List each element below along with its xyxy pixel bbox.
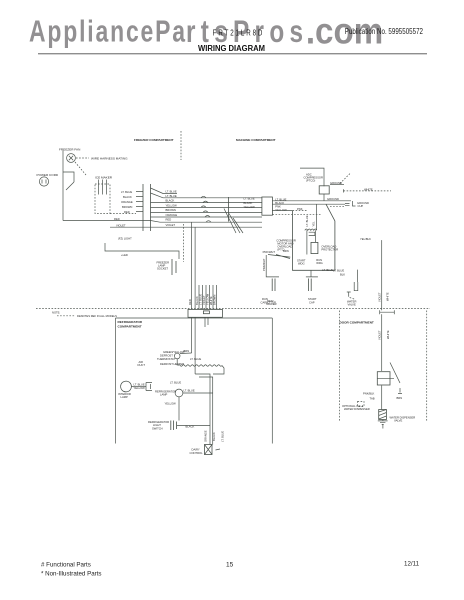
svg-text:YELLOW: YELLOW bbox=[206, 293, 210, 305]
svg-text:# Functional Parts: # Functional Parts bbox=[41, 562, 91, 569]
svg-text:BLACK: BLACK bbox=[195, 296, 199, 305]
lamp socket bracket bbox=[146, 383, 152, 391]
label INTERIOR LAMP bbox=[118, 392, 131, 399]
svg-text:RED: RED bbox=[114, 217, 120, 221]
svg-text:REFRIGERATOR: REFRIGERATOR bbox=[118, 320, 143, 324]
power cord plug P1 bbox=[37, 173, 59, 186]
svg-text:BRN: BRN bbox=[184, 349, 190, 353]
wire thermostat link bbox=[180, 352, 192, 355]
svg-text:BROWN: BROWN bbox=[166, 208, 176, 212]
svg-text:LT. BLUE: LT. BLUE bbox=[134, 382, 145, 386]
svg-text:LT. BLUE: LT. BLUE bbox=[244, 196, 255, 200]
wire violet door vertical bbox=[381, 314, 383, 371]
wire left trunk bbox=[62, 151, 64, 221]
svg-text:LAMP: LAMP bbox=[160, 393, 168, 397]
label OVERLOAD PROTECTOR bbox=[321, 244, 338, 251]
svg-text:DENOTES REF IN ALL MODELS: DENOTES REF IN ALL MODELS bbox=[77, 314, 117, 318]
connector J1 left bar bbox=[142, 184, 144, 231]
publication number text bbox=[345, 26, 423, 36]
label WATER VALVE bbox=[347, 299, 356, 306]
ground symbol door bbox=[378, 420, 388, 429]
svg-text:BLACK: BLACK bbox=[212, 432, 216, 441]
label START CAP bbox=[308, 297, 317, 304]
dairy control box bbox=[205, 445, 213, 455]
wire freezer lamp feed bbox=[105, 243, 179, 259]
svg-text:YELLOW: YELLOW bbox=[244, 205, 256, 209]
wire main violet vertical bbox=[381, 240, 383, 310]
svg-text:LT. BLUE: LT. BLUE bbox=[190, 357, 201, 361]
svg-text:BLACK: BLACK bbox=[166, 199, 175, 203]
capacitor C1 plates bbox=[272, 279, 275, 292]
compartment divider dashed lower bbox=[183, 224, 185, 262]
dairy control cross bbox=[205, 445, 213, 455]
wires into terminal block bbox=[199, 285, 216, 309]
wire lamp2 drop bbox=[178, 397, 180, 421]
refrigerator lamp DS2 bbox=[175, 389, 183, 397]
defrost thermostat circle bbox=[174, 353, 180, 359]
svg-text:BRN: BRN bbox=[283, 249, 289, 253]
label GROUND CUP bbox=[357, 201, 369, 208]
wire brown bbox=[151, 211, 263, 213]
svg-text:GROUND: GROUND bbox=[330, 181, 342, 185]
svg-text:CONTROL: CONTROL bbox=[190, 451, 204, 455]
wire ground diagonal bbox=[340, 174, 350, 184]
wire machine bus black bbox=[272, 200, 351, 202]
door hinge connector bbox=[380, 310, 395, 314]
svg-text:PROTECTOR: PROTECTOR bbox=[321, 247, 338, 251]
svg-text:ORANGE: ORANGE bbox=[203, 430, 207, 442]
label OPTIONAL ICE WATER DISPENSER bbox=[342, 404, 370, 411]
svg-text:(PTCO): (PTCO) bbox=[306, 179, 315, 183]
dairy tick bbox=[216, 449, 221, 450]
svg-text:VIOLET: VIOLET bbox=[378, 330, 382, 340]
svg-text:Publication No. 5995505572: Publication No. 5995505572 bbox=[345, 26, 423, 36]
wire stubs left of J1 bbox=[136, 192, 143, 212]
wire orange bbox=[151, 216, 263, 218]
svg-text:YELLOW: YELLOW bbox=[166, 204, 178, 208]
labels lamp wires bbox=[134, 382, 146, 390]
rotated labels dairy wires bbox=[203, 430, 224, 442]
water valve bracket bbox=[354, 270, 358, 291]
svg-text:PNK/WHT: PNK/WHT bbox=[262, 258, 266, 271]
ice maker pins bbox=[99, 180, 107, 195]
boundary dashed horizontal bbox=[36, 308, 430, 310]
model number text bbox=[213, 27, 263, 37]
svg-text:RED: RED bbox=[188, 299, 192, 305]
wire dashed yellow2 bbox=[272, 213, 320, 215]
svg-text:BLK: BLK bbox=[340, 272, 345, 276]
wire lt blue 2 bbox=[151, 193, 263, 198]
dashed stub bbox=[330, 206, 345, 208]
svg-text:VALVE: VALVE bbox=[394, 419, 402, 423]
svg-text:WDG: WDG bbox=[316, 261, 323, 265]
light switch S1 plates bbox=[171, 421, 177, 431]
wire elbow to relay bbox=[300, 168, 324, 186]
svg-text:DEFROST HEATER: DEFROST HEATER bbox=[160, 362, 184, 366]
leader from fan bbox=[75, 162, 86, 175]
wire white dashed bbox=[344, 190, 392, 192]
labels right of mid bar bbox=[244, 196, 256, 209]
harness wire labels column bbox=[166, 190, 178, 228]
water valve tee bbox=[347, 292, 351, 297]
wire below solenoid bbox=[381, 386, 383, 410]
svg-text:ORANGE: ORANGE bbox=[121, 200, 133, 204]
water dispenser valve box hatched bbox=[379, 410, 387, 420]
svg-text:SOCKET: SOCKET bbox=[157, 267, 168, 271]
svg-text:LT. BLUE: LT. BLUE bbox=[170, 380, 181, 384]
svg-text:GROUND: GROUND bbox=[327, 197, 339, 201]
svg-text:THERMOSTAT: THERMOSTAT bbox=[157, 357, 175, 361]
svg-text:WDG: WDG bbox=[298, 262, 305, 266]
svg-text:WIRING DIAGRAM: WIRING DIAGRAM bbox=[198, 43, 265, 53]
svg-text:VIOLET: VIOLET bbox=[166, 223, 176, 227]
white wire tick bbox=[343, 189, 345, 192]
svg-text:TRACER: TRACER bbox=[266, 302, 277, 306]
wire relay drop bbox=[323, 194, 325, 201]
svg-text:LT. BLUE: LT. BLUE bbox=[221, 431, 225, 442]
svg-text:SWITCH: SWITCH bbox=[152, 426, 163, 430]
svg-text:WHITE: WHITE bbox=[209, 296, 213, 305]
label REFRIGERATOR LAMP bbox=[155, 389, 176, 396]
switch contact bbox=[398, 388, 402, 394]
label WATER DISPENSER VALVE bbox=[390, 415, 416, 422]
svg-text:12/11: 12/11 bbox=[404, 561, 420, 568]
svg-text:ICE MAKER: ICE MAKER bbox=[95, 176, 113, 180]
svg-text:BROWN: BROWN bbox=[122, 205, 132, 209]
svg-text:LT. BLUE: LT. BLUE bbox=[333, 269, 344, 273]
svg-text:NOTE:: NOTE: bbox=[52, 311, 60, 315]
wire trunk lt blue down bbox=[191, 222, 193, 309]
svg-text:BLACK: BLACK bbox=[186, 424, 195, 428]
wire red long bbox=[63, 221, 262, 223]
svg-text:RED: RED bbox=[166, 218, 172, 222]
wire down violet 2 bbox=[194, 317, 196, 374]
wire lt blue 1 bbox=[151, 188, 178, 194]
svg-text:YEL/BLK: YEL/BLK bbox=[360, 237, 371, 241]
compressor winding bumps bbox=[305, 229, 317, 230]
connector J1 right bar bbox=[150, 184, 152, 231]
wire black bbox=[151, 202, 263, 204]
ground underline bbox=[330, 184, 344, 186]
wire switch branch bbox=[63, 172, 74, 182]
svg-text:WATER DISPENSER: WATER DISPENSER bbox=[344, 407, 370, 411]
svg-text:BROWN: BROWN bbox=[213, 295, 217, 305]
title rule line bbox=[38, 53, 427, 55]
label red tracer bbox=[266, 299, 277, 306]
svg-text:VIOLET: VIOLET bbox=[116, 223, 126, 227]
fan motor M1 freezer fan bbox=[59, 148, 80, 163]
svg-text:LT. BLUE: LT. BLUE bbox=[322, 268, 333, 272]
wire thermostat drop bbox=[176, 359, 178, 366]
svg-text:DOOR COMPARTMENT: DOOR COMPARTMENT bbox=[340, 321, 374, 325]
refrigerator compartment top border bbox=[116, 317, 273, 319]
label AIR DUCT bbox=[138, 360, 146, 367]
label RUN WDG bbox=[316, 258, 323, 265]
refrigerator compartment left border bbox=[115, 318, 117, 444]
svg-text:LT. BLUE: LT. BLUE bbox=[166, 194, 177, 198]
compartment divider dashed bbox=[180, 131, 182, 160]
ground cup mark bbox=[353, 201, 356, 206]
svg-text:BLACK: BLACK bbox=[123, 195, 132, 199]
terminal block inner bbox=[203, 311, 209, 314]
svg-text:PNK: PNK bbox=[297, 207, 303, 211]
labels right of J2 bbox=[275, 198, 287, 213]
label DEFROST bbox=[157, 354, 175, 361]
svg-text:PNK/WHT: PNK/WHT bbox=[263, 250, 276, 254]
svg-text:RED: RED bbox=[124, 210, 130, 214]
capacitor C1 lead bbox=[266, 255, 279, 277]
wire violet bbox=[110, 226, 262, 228]
label START WDG bbox=[297, 259, 306, 266]
labels left of J1 bbox=[121, 190, 133, 214]
solenoid mid line bbox=[377, 378, 394, 380]
switch arm freezer bbox=[66, 182, 74, 190]
ground symbol machine bbox=[345, 203, 350, 205]
svg-text:+LED: +LED bbox=[121, 253, 128, 257]
svg-text:* Non-Illustrated Parts: * Non-Illustrated Parts bbox=[41, 571, 102, 578]
capacitor C2 plates bbox=[308, 279, 311, 292]
refrigerator compartment right border bbox=[271, 318, 273, 444]
label COMPRESSOR RELAY block bbox=[276, 239, 295, 252]
svg-text:FREEZER FAN: FREEZER FAN bbox=[59, 148, 80, 152]
svg-text:YEL: YEL bbox=[312, 221, 316, 227]
wire down to thermostat bbox=[191, 317, 193, 353]
compressor U1 outer box bbox=[293, 204, 335, 270]
svg-text:BRN: BRN bbox=[397, 396, 403, 400]
door compartment left dashed border bbox=[339, 311, 341, 422]
door compartment right dashed border bbox=[426, 311, 428, 422]
svg-text:PNK: PNK bbox=[275, 205, 281, 209]
wire dashed below ice maker bbox=[110, 213, 136, 215]
optional dashed box bbox=[358, 402, 365, 407]
svg-text:LT. BLUE: LT. BLUE bbox=[305, 215, 309, 226]
svg-text:FREEZER COMPARTMENT: FREEZER COMPARTMENT bbox=[134, 138, 174, 142]
wire trunk violet down bbox=[194, 227, 196, 309]
freezer lamp socket bars bbox=[172, 259, 176, 275]
wire lamp link bbox=[131, 386, 146, 388]
terminal block TB1 bbox=[188, 309, 222, 317]
ice maker dashed box bbox=[95, 184, 110, 214]
svg-text:WHITE: WHITE bbox=[386, 330, 390, 339]
svg-text:ORANGE: ORANGE bbox=[166, 213, 178, 217]
svg-text:(FZ) LIGHT: (FZ) LIGHT bbox=[118, 237, 132, 241]
label FREEZER LAMP SOCKET bbox=[157, 261, 170, 271]
svg-text:WHITE: WHITE bbox=[364, 188, 373, 192]
label REFRIGERATOR LIGHT SWITCH bbox=[148, 420, 169, 430]
wire heater return bbox=[213, 366, 224, 375]
svg-text:AppliancePa: AppliancePa bbox=[29, 14, 186, 48]
svg-text:COMPARTMENT: COMPARTMENT bbox=[118, 325, 142, 329]
svg-text:WHITE: WHITE bbox=[386, 292, 390, 301]
svg-text:POWER CORD: POWER CORD bbox=[37, 173, 59, 177]
wire lamp2 to dairy wire bbox=[183, 392, 213, 394]
svg-text:YELLOW: YELLOW bbox=[165, 401, 177, 405]
compressor stator verticals bbox=[307, 230, 316, 254]
connector mid bar bbox=[228, 197, 230, 222]
svg-text:DUCT: DUCT bbox=[138, 363, 146, 367]
leader wire harness mating bbox=[76, 157, 89, 159]
svg-text:LT. BLUE: LT. BLUE bbox=[121, 190, 132, 194]
svg-text:VALVE: VALVE bbox=[348, 302, 356, 306]
label RUN CAPACITOR bbox=[261, 297, 276, 304]
wire start winding feed bbox=[316, 204, 318, 230]
switch arm door bbox=[390, 363, 400, 384]
wire yellow bbox=[151, 206, 263, 208]
dispenser solenoid L1 box bbox=[377, 372, 390, 385]
label ADC COMPRESSOR PTCO bbox=[304, 173, 323, 183]
wire switch to dairy bbox=[177, 425, 210, 427]
svg-text:15: 15 bbox=[226, 562, 234, 569]
pointer diagonals bbox=[268, 255, 290, 259]
svg-text:CAP: CAP bbox=[309, 300, 315, 304]
wire cross diagonals bbox=[224, 209, 243, 234]
svg-text:CUP: CUP bbox=[358, 204, 364, 208]
label DAIRY CONTROL bbox=[190, 448, 204, 455]
connector J2 machine side bbox=[262, 197, 273, 215]
watermark AppliancePartsPros.com bbox=[29, 14, 186, 48]
svg-text:FRT21LR8D: FRT21LR8D bbox=[213, 27, 263, 37]
note dashes bbox=[57, 315, 75, 317]
wire pair to dairy verticals bbox=[195, 374, 210, 445]
svg-text:PNK/BLK: PNK/BLK bbox=[363, 392, 375, 396]
svg-text:VIOLET: VIOLET bbox=[378, 292, 382, 302]
svg-text:VIOLET: VIOLET bbox=[202, 295, 206, 305]
relay K1 box bbox=[319, 186, 329, 194]
svg-text:MACHINE COMPARTMENT: MACHINE COMPARTMENT bbox=[236, 138, 276, 142]
svg-text:TAB: TAB bbox=[370, 396, 375, 400]
svg-text:LT. BLUE: LT. BLUE bbox=[199, 294, 203, 305]
wire dairy second bbox=[199, 377, 213, 445]
svg-text:YELLOW: YELLOW bbox=[275, 208, 287, 212]
svg-text:WIRE HARNESS MATING: WIRE HARNESS MATING bbox=[91, 157, 128, 161]
wire yellow drop bbox=[272, 210, 292, 212]
overload inner box bbox=[311, 242, 318, 253]
svg-text:BLACK: BLACK bbox=[244, 201, 253, 205]
connector loop bumps bbox=[201, 196, 211, 222]
svg-text:LT. BLUE: LT. BLUE bbox=[166, 190, 177, 194]
wire machine bus black2 bbox=[272, 203, 345, 205]
wire pnk dashed bbox=[293, 210, 308, 212]
capacitor C2 lead bbox=[306, 270, 318, 277]
rotated wire labels above compressor bbox=[305, 215, 316, 226]
svg-text:LT. BLUE: LT. BLUE bbox=[184, 388, 195, 392]
water valve dashes bbox=[350, 298, 356, 300]
start winding loop bbox=[309, 232, 315, 235]
svg-text:LAMP: LAMP bbox=[121, 395, 129, 399]
label REFRIGERATOR COMPARTMENT bbox=[118, 320, 143, 329]
rotated labels above terminal block bbox=[188, 293, 217, 305]
interior lamp DS1 bbox=[121, 381, 132, 392]
terminal stubs below block bbox=[205, 317, 208, 327]
defrost heater element squiggle bbox=[178, 365, 222, 367]
